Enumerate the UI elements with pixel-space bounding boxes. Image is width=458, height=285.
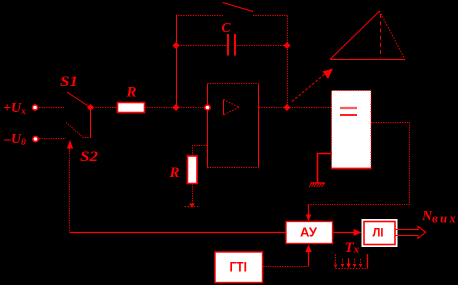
svg-text:C: C (222, 20, 232, 35)
wire feedback right vertical (287, 16, 289, 108)
svg-text:ЛІ: ЛІ (373, 226, 384, 240)
node +Ux input terminal (32, 105, 37, 110)
svg-text:R: R (126, 85, 137, 101)
pulse train Tx (336, 254, 369, 269)
pulse arrowheads (334, 264, 362, 269)
junction cap right node (283, 42, 290, 49)
arrowhead into LI (354, 229, 362, 236)
wire AU to LI (333, 232, 357, 234)
output hollow arrow Nvih (396, 226, 426, 238)
svg-text:ГТІ: ГТІ (230, 259, 248, 275)
junction input node (172, 104, 179, 111)
wire R to input node (145, 107, 177, 109)
wire control feedback horizontal to AU (70, 232, 287, 234)
block AU (286, 222, 333, 244)
wire GTI riser (308, 251, 310, 267)
wire GTI to AU (263, 266, 309, 268)
wire input node to op-amp (176, 107, 206, 109)
block GTI (215, 252, 263, 283)
ground comparator (309, 183, 325, 187)
wire op-amp output (259, 107, 287, 109)
wire top loop right (253, 15, 288, 17)
svg-text:S2: S2 (80, 149, 99, 165)
arrowhead into AU bottom (305, 245, 311, 253)
wire cap right (235, 45, 288, 47)
S2 control arrowhead (67, 140, 73, 149)
wire top loop left (176, 15, 223, 17)
switch S1 arm (67, 92, 91, 108)
comparator U2 box (332, 91, 372, 169)
op-amp U1 box (208, 84, 259, 168)
node op-amp input terminal (205, 105, 210, 110)
wire feedback left vertical (176, 15, 178, 108)
wire comparator output (309, 123, 410, 205)
resistor R (118, 103, 145, 113)
wire +Ux to S1 (39, 107, 64, 109)
resistor R2 (188, 156, 198, 184)
svg-text:Nвих: Nвих (421, 209, 458, 226)
svg-text:R: R (169, 165, 180, 181)
capacitor C plates (228, 34, 235, 56)
wire output to comparator (287, 107, 332, 109)
block LI (362, 219, 398, 247)
ground R2 (185, 204, 201, 208)
wire R2 down (192, 184, 194, 206)
junction output node (283, 104, 290, 111)
svg-text:АУ: АУ (300, 225, 318, 240)
arrowhead into AU top (306, 215, 312, 222)
wire S2 contact segment (83, 137, 91, 139)
wire comparator output drop to AU (308, 205, 310, 217)
svg-text:S1: S1 (60, 74, 78, 90)
node -U0 input terminal (33, 136, 38, 141)
wire R2 to op-amp (193, 146, 208, 157)
wire S2 control vertical (69, 148, 71, 232)
waveform pointer arrow (292, 69, 333, 102)
wire junction down to S2 contact (90, 108, 92, 138)
wire S1 junction to R (91, 107, 118, 109)
wire cap left (176, 45, 228, 47)
switch S2 arm (66, 123, 82, 138)
op-amp amplifier triangle (224, 100, 240, 116)
switch reset arm (223, 3, 254, 12)
comparator bottom edge (332, 168, 372, 170)
waveform triangle (330, 11, 405, 60)
junction S1 node (87, 104, 94, 111)
junction cap left node (172, 42, 179, 49)
wire -U0 to S2 (39, 138, 66, 140)
comparator = symbol (340, 108, 357, 115)
wire comparator reference input (318, 154, 333, 184)
